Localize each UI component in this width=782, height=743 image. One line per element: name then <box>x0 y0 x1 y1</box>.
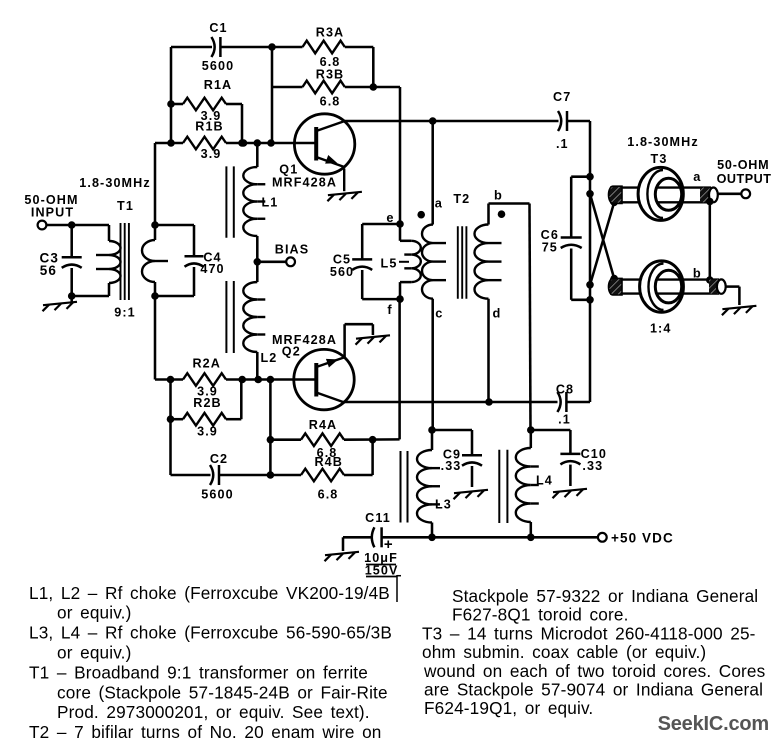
svg-text:f: f <box>387 302 392 317</box>
svg-text:a: a <box>693 169 701 184</box>
svg-text:Stackpole 57-9322 or Indiana G: Stackpole 57-9322 or Indiana General <box>452 586 758 606</box>
svg-text:R3B: R3B <box>316 68 345 82</box>
svg-text:C1: C1 <box>209 21 227 35</box>
svg-text:5600: 5600 <box>202 59 234 73</box>
svg-text:5600: 5600 <box>201 488 233 502</box>
svg-text:T1: T1 <box>117 199 134 213</box>
svg-text:Q1: Q1 <box>279 163 298 177</box>
svg-text:or equiv.): or equiv.) <box>57 603 131 623</box>
svg-text:6.8: 6.8 <box>318 488 339 502</box>
svg-text:e: e <box>386 210 394 225</box>
svg-text:are Stackpole 57-9074 or India: are Stackpole 57-9074 or Indiana General <box>424 680 763 700</box>
svg-text:.1: .1 <box>558 413 571 427</box>
svg-text:T3: T3 <box>651 152 668 166</box>
svg-text:wound on each of two toroid co: wound on each of two toroid cores. Cores <box>423 661 765 681</box>
svg-text:T2: T2 <box>453 192 470 206</box>
svg-text:L2: L2 <box>261 351 278 365</box>
svg-text:SeekIC.com: SeekIC.com <box>658 713 769 735</box>
svg-text:R3A: R3A <box>316 26 345 40</box>
svg-text:1.8-30MHz: 1.8-30MHz <box>627 135 699 149</box>
svg-text:56: 56 <box>40 263 57 278</box>
svg-text:C7: C7 <box>553 90 571 104</box>
svg-text:150V: 150V <box>365 564 399 578</box>
svg-text:560: 560 <box>330 265 354 279</box>
svg-text:50-OHM: 50-OHM <box>717 158 769 172</box>
svg-text:ohm submin. coax cable (or equ: ohm submin. coax cable (or equiv.) <box>422 642 706 662</box>
svg-text:C11: C11 <box>365 511 391 525</box>
svg-text:c: c <box>435 306 443 321</box>
svg-text:INPUT: INPUT <box>31 206 74 220</box>
svg-text:L4: L4 <box>536 474 553 488</box>
svg-text:BIAS: BIAS <box>275 243 310 257</box>
svg-text:Q2: Q2 <box>282 345 301 359</box>
svg-text:1:4: 1:4 <box>650 322 672 336</box>
svg-text:b: b <box>494 188 503 203</box>
svg-text:C2: C2 <box>210 452 228 466</box>
svg-text:OUTPUT: OUTPUT <box>717 172 772 186</box>
svg-text:b: b <box>693 266 702 281</box>
svg-text:3.9: 3.9 <box>201 147 222 161</box>
svg-text:R4B: R4B <box>314 455 343 469</box>
svg-text:a: a <box>435 196 443 211</box>
svg-text:L1: L1 <box>262 196 279 210</box>
svg-text:L1, L2 – Rf choke (Ferroxcube: L1, L2 – Rf choke (Ferroxcube VK200-19/4… <box>29 583 390 603</box>
svg-text:9:1: 9:1 <box>114 306 136 320</box>
svg-text:core (Stackpole 57-1845-24B or: core (Stackpole 57-1845-24B or Fair-Rite <box>57 682 388 702</box>
svg-text:R4A: R4A <box>309 418 338 432</box>
svg-text:R1B: R1B <box>195 120 224 134</box>
svg-text:L5: L5 <box>381 257 398 271</box>
svg-text:T2 – 7 bifilar turns of No. 20: T2 – 7 bifilar turns of No. 20 enam wire… <box>29 722 381 738</box>
svg-text:MRF428A: MRF428A <box>272 176 337 190</box>
svg-text:or equiv.): or equiv.) <box>57 643 131 663</box>
svg-text:L3, L4 – Rf choke (Ferroxcube: L3, L4 – Rf choke (Ferroxcube 56-590-65/… <box>29 623 392 643</box>
svg-text:.33: .33 <box>582 459 603 473</box>
svg-text:6.8: 6.8 <box>320 95 341 109</box>
svg-text:.33: .33 <box>441 459 462 473</box>
svg-text:F624-19Q1, or equiv.: F624-19Q1, or equiv. <box>424 698 593 718</box>
svg-text:1.8-30MHz: 1.8-30MHz <box>79 176 151 190</box>
svg-text:75: 75 <box>542 241 558 255</box>
svg-text:C8: C8 <box>556 383 574 397</box>
svg-text:T3 – 14 turns Microdot 260-411: T3 – 14 turns Microdot 260-4118-000 25- <box>422 623 756 643</box>
svg-text:.1: .1 <box>556 137 569 151</box>
svg-text:R2B: R2B <box>193 396 222 410</box>
svg-text:470: 470 <box>200 262 224 276</box>
svg-text:R1A: R1A <box>204 78 233 92</box>
svg-text:R2A: R2A <box>192 357 221 371</box>
svg-text:+50 VDC: +50 VDC <box>611 531 674 546</box>
svg-text:L3: L3 <box>435 498 452 512</box>
svg-text:3.9: 3.9 <box>197 425 218 439</box>
svg-text:d: d <box>493 306 502 321</box>
svg-text:Prod. 2973000201, or equiv. Se: Prod. 2973000201, or equiv. See text). <box>57 702 370 722</box>
svg-text:T1 – Broadband 9:1 transformer: T1 – Broadband 9:1 transformer on ferrit… <box>29 662 368 682</box>
svg-text:F627-8Q1 toroid core.: F627-8Q1 toroid core. <box>452 605 629 625</box>
